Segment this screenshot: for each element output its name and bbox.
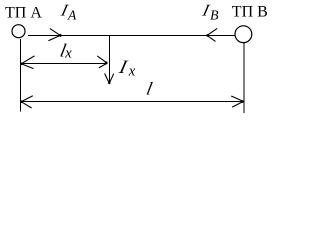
svg-text:x: x [128, 64, 136, 80]
svg-text:A: A [67, 8, 77, 23]
source circle B [235, 26, 252, 43]
arrowhead I_A [48, 28, 61, 40]
dimension line l [21, 100, 243, 102]
label current I_B [200, 1, 219, 24]
wire main line [28, 35, 235, 37]
arrowhead l left [20, 96, 33, 108]
label length l_x [58, 40, 72, 61]
svg-text:ТП В: ТП В [232, 3, 268, 20]
svg-text:B: B [210, 9, 219, 24]
arrowhead I_x down [105, 74, 114, 85]
svg-text:x: x [64, 46, 72, 62]
dimension line l_x [21, 62, 107, 64]
arrowhead l_x left [20, 56, 34, 69]
wire I_x vertical drop [109, 35, 111, 84]
source circle A [12, 25, 25, 38]
label current I_A [58, 1, 77, 23]
svg-text:ТП А: ТП А [5, 5, 42, 22]
arrowhead l_x right [97, 56, 107, 68]
arrowhead I_B [206, 28, 217, 41]
extension line right [243, 43, 245, 113]
arrowhead l right [231, 96, 243, 107]
extension line left [20, 39, 22, 111]
label current I_x [116, 57, 136, 80]
